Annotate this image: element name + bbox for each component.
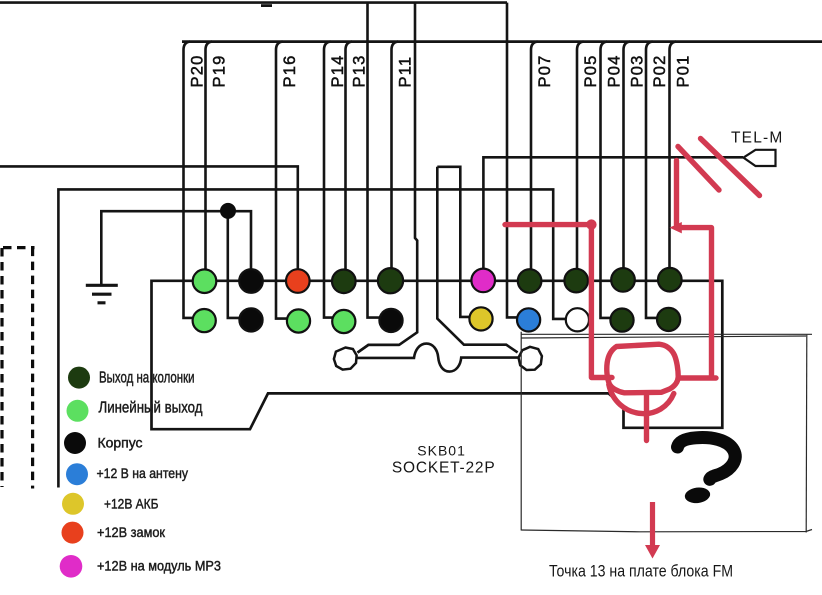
pin top magenta (MP3 module) bbox=[471, 269, 495, 293]
wire junction branch to bottom black pin bbox=[228, 211, 240, 318]
svg-text:+12В АКБ: +12В АКБ bbox=[104, 495, 159, 511]
keying circle left bbox=[334, 348, 357, 370]
annotation red cut slashes bbox=[505, 139, 760, 441]
svg-text:Линейный выход: Линейный выход bbox=[99, 399, 204, 416]
wire left line out bbox=[0, 166, 298, 281]
annotation red path from TEL-M bbox=[674, 161, 679, 226]
connector box SKB01 bbox=[152, 281, 723, 429]
pin bottom yellow (+12V battery) bbox=[469, 307, 492, 330]
pin P03 top dark green bbox=[611, 268, 635, 292]
pin P19 top light green bbox=[193, 269, 217, 293]
wire bridge leg to keying right bbox=[437, 167, 517, 353]
svg-text:P13: P13 bbox=[351, 55, 369, 88]
pin P16 bottom light green bbox=[287, 309, 310, 332]
question area thin box bbox=[521, 332, 812, 533]
wire P11 bbox=[392, 42, 399, 281]
svg-text:+12 В на антену: +12 В на антену bbox=[97, 465, 189, 481]
pin P07 top dark green bbox=[518, 269, 542, 293]
pin top red (+12V lock) bbox=[286, 269, 310, 293]
wire head-unit bus bbox=[182, 40, 822, 43]
annotation red arrow down bbox=[645, 502, 660, 559]
legend dot +12V ignition bbox=[62, 522, 84, 544]
svg-text:P01: P01 bbox=[675, 55, 693, 88]
svg-text:P19: P19 bbox=[211, 55, 229, 88]
keying circle right bbox=[519, 347, 542, 370]
annotation red circle bbox=[607, 344, 678, 393]
wire drop C (+12V antenna to blue pin) bbox=[507, 3, 518, 318]
dashed outline left bbox=[2, 248, 35, 489]
keying slot middle bbox=[356, 344, 518, 372]
annotation red stub below circle bbox=[644, 393, 649, 441]
annotation question mark bbox=[678, 438, 736, 480]
junction dot bbox=[220, 203, 236, 219]
svg-text:P16: P16 bbox=[281, 55, 299, 88]
legend dot chassis bbox=[64, 432, 86, 454]
annotation red arrowhead left bbox=[670, 222, 682, 233]
pin P01 top dark green bbox=[658, 268, 682, 292]
wire ground to black pins bbox=[101, 211, 251, 284]
svg-text:Корпус: Корпус bbox=[98, 435, 143, 451]
annotation question dot bbox=[684, 486, 711, 504]
ground bbox=[86, 285, 118, 303]
TEL-M flag bbox=[744, 150, 776, 166]
svg-text:P02: P02 bbox=[651, 55, 669, 88]
svg-text:P03: P03 bbox=[629, 55, 647, 88]
svg-text:P07: P07 bbox=[536, 55, 554, 88]
tick mark bbox=[261, 4, 272, 7]
pin P02 bottom dark green bbox=[657, 308, 680, 331]
svg-text:P14: P14 bbox=[329, 55, 347, 88]
wire P01 bbox=[670, 42, 677, 280]
wire left long (to white pin) bbox=[58, 189, 566, 487]
wire top bus bbox=[0, 1, 507, 4]
legend dot +12V battery bbox=[62, 493, 84, 515]
keying outline left bbox=[358, 345, 400, 353]
wire P19 bbox=[206, 42, 213, 281]
legend dot +12V antenna bbox=[66, 463, 88, 485]
wire bridge to yellow pin bbox=[437, 167, 470, 317]
pin P11 top dark green bbox=[378, 268, 403, 293]
wire drop B (to keying left) bbox=[358, 3, 418, 353]
pin P13 top dark green bbox=[332, 270, 356, 294]
svg-text:P05: P05 bbox=[582, 55, 600, 88]
wire TEL-M bbox=[483, 157, 743, 280]
svg-text:SOCKET-22P: SOCKET-22P bbox=[392, 460, 496, 477]
wire P16 bbox=[276, 42, 288, 319]
pin P20 bottom light green bbox=[193, 309, 216, 332]
svg-text:SKB01: SKB01 bbox=[417, 442, 466, 458]
svg-text:TEL-M: TEL-M bbox=[731, 130, 784, 147]
svg-text:P04: P04 bbox=[606, 55, 624, 88]
annotation red path left bbox=[505, 222, 591, 227]
wire P07 bbox=[531, 42, 538, 281]
pin bottom blue (+12V antenna) bbox=[517, 308, 540, 331]
wire P04 bbox=[601, 42, 612, 318]
wire P03 bbox=[624, 42, 631, 280]
pin P05 top dark green bbox=[564, 269, 588, 293]
svg-text:Выход на колонки: Выход на колонки bbox=[99, 369, 195, 386]
wire P20 bbox=[184, 42, 194, 318]
wire P13 bbox=[346, 42, 353, 281]
pin P14 bottom light green bbox=[332, 310, 355, 333]
svg-text:P20: P20 bbox=[189, 55, 207, 88]
legend dot speakers out bbox=[68, 367, 90, 389]
wire P05 bbox=[577, 42, 584, 281]
pin bottom black 2 bbox=[379, 309, 402, 332]
annotation red blob bbox=[586, 219, 596, 229]
svg-text:+12В на модуль МР3: +12В на модуль МР3 bbox=[97, 557, 221, 573]
pin P04 bottom dark green bbox=[610, 309, 633, 332]
svg-text:Точка 13 на плате блока FM: Точка 13 на плате блока FM bbox=[549, 563, 733, 581]
svg-text:P11: P11 bbox=[397, 56, 415, 88]
wire P02 bbox=[646, 42, 658, 318]
svg-text:+12В замок: +12В замок bbox=[97, 524, 166, 540]
pin top black (ground) bbox=[239, 269, 263, 293]
wire P14 bbox=[324, 42, 333, 318]
legend dot +12V MP3 bbox=[60, 555, 83, 578]
pin bottom white bbox=[566, 308, 589, 331]
pin bottom black (ground) bbox=[239, 308, 262, 331]
legend dot line out bbox=[67, 400, 89, 422]
wire drop A (to bottom pin 5) bbox=[368, 3, 381, 318]
